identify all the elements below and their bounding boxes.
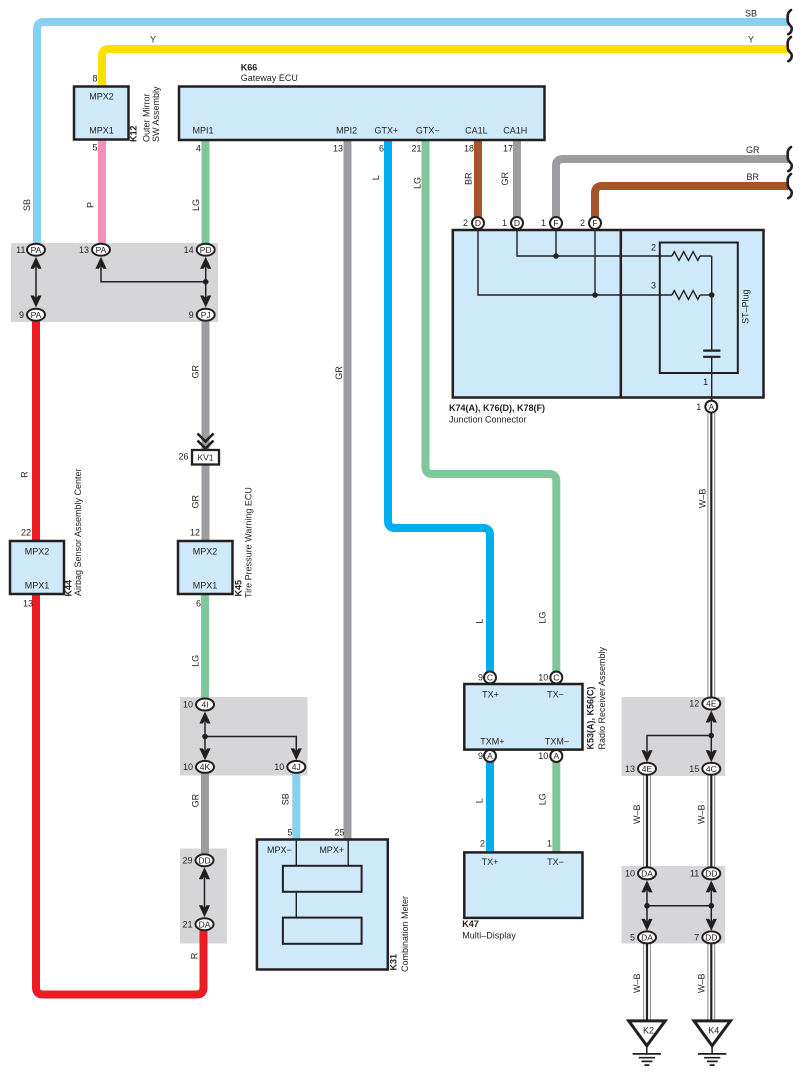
ground stem K2 [646, 1046, 648, 1054]
wire SB horizontal+vertical (sky blue) [37, 22, 788, 246]
capacitor C plate 1 [703, 350, 720, 352]
svg-text:10: 10 [538, 673, 548, 683]
band2 link arrow up col 4I [199, 712, 210, 724]
node dot resistor3 right [709, 292, 715, 298]
svg-text:11: 11 [16, 245, 25, 255]
shield band 5 (DA/DD junction block right) [622, 866, 726, 944]
connector 14 PD [184, 244, 215, 256]
wire L A9 to K47 pin2 [486, 761, 494, 853]
svg-text:Combination Meter: Combination Meter [400, 896, 410, 972]
svg-text:DD: DD [705, 869, 717, 879]
svg-text:4E: 4E [706, 699, 717, 709]
svg-text:CA1H: CA1H [503, 126, 527, 136]
svg-text:4E: 4E [642, 764, 653, 774]
connector 15 4C [689, 763, 720, 775]
wire LG K66 GTX- pin21 to C10 [426, 140, 557, 673]
svg-text:15: 15 [689, 764, 699, 774]
svg-text:7: 7 [694, 933, 699, 943]
svg-text:DA: DA [641, 869, 653, 879]
svg-text:MPI1: MPI1 [192, 126, 213, 136]
shield band 2 (4I/4K/4J junction block) [180, 697, 308, 776]
svg-text:SW Assembly: SW Assembly [151, 86, 161, 142]
wire W-B A1 to 4E12 (double line) [708, 413, 715, 698]
svg-text:MPI2: MPI2 [336, 126, 357, 136]
svg-text:17: 17 [503, 144, 513, 154]
svg-text:1: 1 [502, 218, 507, 228]
svg-text:SB: SB [22, 199, 32, 211]
junction row 3 wire to node [700, 294, 712, 296]
svg-text:K53(A), K56(C): K53(A), K56(C) [585, 686, 595, 749]
svg-text:MPX+: MPX+ [319, 845, 344, 855]
svg-text:GTX+: GTX+ [375, 126, 399, 136]
pin 9 C [478, 672, 496, 684]
wire LG K66 MPI1 pin4 to PD14 [202, 140, 210, 246]
svg-text:MPX2: MPX2 [193, 547, 218, 557]
wire Y horizontal+vertical (yellow) [102, 49, 788, 88]
wire L K66 GTX+ pin6 to C9 [388, 140, 490, 673]
svg-text:TX+: TX+ [482, 857, 499, 867]
shield band 1 (PA/PD/PJ junction block) [11, 243, 218, 322]
svg-text:MPX2: MPX2 [89, 92, 114, 102]
band5 node dot left [644, 903, 650, 909]
svg-text:12: 12 [689, 699, 699, 709]
wire SB 4J to K31 pin5 [292, 773, 300, 841]
ground bars K2 [633, 1054, 661, 1065]
band4 link arrow down col 4E13 [641, 750, 652, 762]
band1 link arrow down col PJ9 [200, 296, 211, 308]
svg-text:2: 2 [480, 839, 485, 849]
band2 node dot [202, 734, 208, 740]
band1 link wire col 36 [35, 262, 37, 302]
junction row 3 wire from D2 [478, 230, 672, 295]
KV1 shield double chevron [198, 434, 214, 449]
svg-text:LG: LG [538, 612, 548, 624]
svg-text:10: 10 [183, 762, 193, 772]
connector 10 DA [625, 867, 656, 879]
svg-text:W–B: W–B [632, 974, 642, 994]
svg-text:5: 5 [92, 143, 97, 153]
svg-text:11: 11 [690, 869, 699, 879]
wire F1 stub [555, 230, 557, 256]
band1 link arrow up col PA11 [30, 257, 41, 269]
band2 link arrow down col 4J [291, 748, 302, 760]
K31 internal wire from pin5 [295, 840, 297, 866]
capacitor C plate 2 [703, 356, 720, 358]
svg-text:6: 6 [196, 599, 201, 609]
svg-text:PJ: PJ [201, 310, 211, 320]
wire W-B 4E13 to DA10 (double line) [644, 775, 651, 867]
band5 cross wire [647, 905, 711, 907]
svg-text:LG: LG [412, 177, 422, 189]
svg-text:21: 21 [182, 919, 192, 929]
svg-text:K66: K66 [241, 62, 258, 72]
svg-text:K2: K2 [643, 1026, 654, 1036]
svg-text:10: 10 [625, 869, 635, 879]
svg-text:TX−: TX− [547, 690, 564, 700]
band4 link wire to 4E13 column [647, 736, 711, 758]
band5 node dot right [709, 903, 715, 909]
svg-text:F: F [553, 218, 558, 228]
band4 link wire col 711.3 [710, 716, 712, 757]
svg-text:K45: K45 [234, 580, 244, 597]
svg-text:5: 5 [287, 827, 292, 837]
connector 7 DD [694, 931, 720, 943]
junction row 2 wire to vertical [700, 255, 712, 257]
band4 link arrow down col 4C15 [706, 750, 717, 762]
svg-text:13: 13 [23, 599, 33, 609]
svg-text:K4: K4 [708, 1026, 719, 1036]
resistor 3 [672, 291, 700, 300]
connector 29 DD [182, 854, 213, 866]
ST-Plug inner box [660, 243, 738, 374]
svg-text:Tire Pressure Warning ECU: Tire Pressure Warning ECU [244, 487, 254, 598]
svg-text:CA1L: CA1L [465, 126, 488, 136]
svg-text:4K: 4K [200, 762, 211, 772]
svg-text:22: 22 [21, 528, 31, 538]
svg-text:W–B: W–B [697, 974, 707, 994]
svg-text:ST–Plug: ST–Plug [741, 289, 751, 324]
svg-text:A: A [708, 402, 714, 412]
svg-text:MPX2: MPX2 [25, 547, 50, 557]
svg-text:13: 13 [625, 764, 635, 774]
svg-text:PD: PD [200, 245, 212, 255]
svg-text:P: P [86, 202, 96, 208]
svg-text:C: C [553, 673, 559, 683]
svg-text:MPX−: MPX− [267, 845, 292, 855]
break symbol GR [788, 147, 792, 171]
ST-plug vertical wire [711, 256, 713, 350]
pin 1 F [541, 217, 562, 229]
svg-text:W–B: W–B [697, 805, 707, 825]
svg-text:GR: GR [746, 145, 760, 155]
svg-text:L: L [371, 175, 381, 180]
svg-text:14: 14 [184, 245, 194, 255]
svg-text:DD: DD [705, 933, 717, 943]
svg-text:GR: GR [500, 172, 510, 186]
pin 1 D [502, 217, 523, 229]
K31 inner rect lower [283, 918, 362, 944]
wire GR K66 MPI2 pin13 to K31 pin25 [344, 140, 352, 841]
box K12 Outer Mirror SW Assembly [74, 87, 129, 140]
svg-text:GR: GR [191, 494, 201, 508]
svg-text:TXM+: TXM+ [480, 736, 504, 746]
svg-text:TX−: TX− [547, 857, 564, 867]
connector 5 DA [630, 931, 656, 943]
break symbol SB [788, 10, 792, 34]
svg-text:9: 9 [189, 310, 194, 320]
band1 link arrow down col PA9 [30, 296, 41, 308]
svg-text:3: 3 [651, 280, 656, 290]
svg-text:BR: BR [464, 172, 474, 185]
wire W-B 4C15 to DD11 (double line) [708, 775, 715, 867]
band3 link arrow up col DD29 [199, 867, 210, 879]
svg-text:DA: DA [199, 919, 211, 929]
svg-text:29: 29 [182, 856, 192, 866]
svg-text:GR: GR [191, 365, 201, 379]
svg-text:13: 13 [333, 144, 343, 154]
svg-text:25: 25 [334, 827, 344, 837]
band5 link wire col 711.3 [710, 886, 712, 925]
box K53/K56 Radio Receiver Assembly [464, 684, 582, 750]
band3 link arrow down col DA21 [199, 905, 210, 917]
band5 link arrow up col DA10 [641, 880, 652, 892]
wire GR PJ9 to KV1 pin26 [202, 318, 210, 451]
svg-text:LG: LG [191, 199, 201, 211]
band1 link arrow up col PD14 [200, 257, 211, 269]
pin 2 D [463, 217, 484, 229]
pin 2 F [580, 217, 601, 229]
svg-text:K74(A), K76(D), K78(F): K74(A), K76(D), K78(F) [449, 403, 545, 413]
connector 9 PJ [189, 309, 215, 321]
band1 link arrow up col PA13 [95, 257, 106, 269]
K31 inner rect upper [283, 866, 362, 892]
band1 link wire PA13 to PD column [101, 262, 206, 282]
svg-text:MPX1: MPX1 [193, 581, 218, 591]
svg-text:TX+: TX+ [482, 690, 499, 700]
svg-text:9: 9 [478, 673, 483, 683]
K31 internal wire from pin25 [347, 840, 349, 866]
svg-text:Y: Y [748, 35, 754, 45]
svg-text:W–B: W–B [697, 489, 707, 509]
connector 10 4K [183, 761, 214, 773]
connector 9 PA [19, 309, 45, 321]
band2 link arrow down col 4K [199, 748, 210, 760]
svg-text:PA: PA [31, 310, 42, 320]
connector 11 DD [690, 867, 720, 879]
ground triangle K4 [694, 1021, 731, 1046]
band3 link wire [204, 872, 206, 913]
box KV1 [192, 450, 219, 465]
wire GR 4K to DD29 [201, 773, 209, 856]
svg-text:LG: LG [191, 655, 201, 667]
svg-text:GR: GR [334, 366, 344, 380]
svg-text:TXM−: TXM− [545, 736, 569, 746]
pin 9 A [478, 750, 496, 762]
svg-text:A: A [553, 751, 559, 761]
box K31 Combination Meter [257, 840, 388, 970]
wire F2 stub [594, 230, 596, 295]
wire P (pink) K12 pin5 to PA13 [98, 140, 106, 246]
svg-text:4: 4 [196, 144, 201, 154]
band2 link wire col 205 [204, 717, 206, 756]
svg-text:GR: GR [191, 793, 201, 807]
svg-text:Junction Connector: Junction Connector [449, 415, 527, 425]
box K66 Gateway ECU [179, 87, 545, 141]
svg-text:K44: K44 [63, 580, 73, 597]
band2 link wire to 4J column [205, 737, 296, 757]
svg-text:26: 26 [178, 452, 188, 462]
svg-text:2: 2 [651, 242, 656, 252]
svg-text:1: 1 [547, 839, 552, 849]
band5 link arrow down col DA5 [641, 919, 652, 931]
svg-text:9: 9 [19, 310, 24, 320]
svg-text:6: 6 [379, 144, 384, 154]
connector 11 PA [16, 244, 45, 256]
svg-text:LG: LG [538, 793, 548, 805]
band1 link wire col 205.7 [205, 262, 207, 302]
svg-text:GTX−: GTX− [416, 126, 440, 136]
svg-text:BR: BR [747, 172, 760, 182]
band4 node dot [709, 733, 715, 739]
svg-text:1: 1 [703, 377, 708, 387]
svg-text:2: 2 [463, 218, 468, 228]
svg-text:4J: 4J [292, 762, 301, 772]
wire LG A10 to K47 pin1 [552, 761, 560, 853]
connector 10 4I [183, 699, 214, 711]
svg-text:MPX1: MPX1 [25, 581, 50, 591]
svg-text:SB: SB [281, 793, 291, 805]
svg-text:D: D [475, 218, 481, 228]
svg-text:21: 21 [411, 144, 421, 154]
svg-text:DA: DA [641, 933, 653, 943]
box K45 Tire Pressure Warning ECU [178, 541, 233, 594]
wire R PA9 to K44 pin22 [32, 318, 40, 542]
svg-text:W–B: W–B [632, 805, 642, 825]
break symbol Y [788, 37, 792, 61]
svg-text:2: 2 [580, 218, 585, 228]
svg-text:KV1: KV1 [197, 453, 213, 463]
pin 10 A [538, 750, 562, 762]
band1 node dot [203, 279, 209, 285]
wire LG K45 pin6 to 4I [201, 593, 209, 700]
resistor 2 [672, 252, 700, 261]
svg-text:1: 1 [696, 402, 701, 412]
svg-text:10: 10 [538, 751, 548, 761]
connector 13 PA [79, 244, 110, 256]
svg-text:PA: PA [96, 245, 107, 255]
svg-text:K31: K31 [388, 954, 398, 971]
svg-text:PA: PA [31, 245, 42, 255]
wire W-B DD7 to ground K4 (double line) [708, 943, 715, 1022]
band5 link wire col 647 [646, 886, 648, 925]
svg-text:8: 8 [92, 74, 97, 84]
svg-text:4C: 4C [706, 764, 717, 774]
svg-text:9: 9 [478, 751, 483, 761]
svg-text:L: L [474, 619, 484, 624]
break symbol BR [788, 174, 792, 198]
node dot row3/F2 [592, 292, 598, 298]
svg-text:10: 10 [183, 700, 193, 710]
svg-text:C: C [487, 673, 493, 683]
node dot row2/F1 [553, 253, 559, 259]
wire GR K66 CA1H pin17 to D1 [513, 140, 521, 217]
svg-text:R: R [190, 952, 200, 959]
svg-text:A: A [487, 751, 493, 761]
svg-text:1: 1 [541, 218, 546, 228]
svg-text:DD: DD [198, 856, 210, 866]
svg-text:SB: SB [745, 9, 757, 19]
svg-text:Radio Receiver Assembly: Radio Receiver Assembly [597, 646, 607, 749]
band5 link arrow up col DD11 [706, 880, 717, 892]
wire R K44 pin13 down across to DA21 [36, 593, 204, 995]
connector 12 4E [689, 698, 720, 710]
wire capacitor to pin 1 / A [711, 357, 713, 400]
box K47 Multi-Display [464, 852, 582, 918]
svg-text:12: 12 [190, 528, 200, 538]
shield band 4 (4E/4C junction block) [622, 697, 726, 776]
wire BR right horizontal to F2 [595, 186, 788, 217]
wire BR K66 CA1L pin18 to D2 [474, 140, 482, 217]
wire GR right horizontal to F1 [556, 159, 788, 217]
junction connector divider [620, 230, 623, 398]
svg-text:5: 5 [630, 933, 635, 943]
svg-text:K12: K12 [129, 125, 139, 142]
junction row 2 wire from D1 [517, 230, 672, 256]
svg-text:Multi–Display: Multi–Display [462, 931, 516, 941]
svg-text:10: 10 [274, 762, 284, 772]
connector 13 4E [625, 763, 656, 775]
ground bars K4 [698, 1054, 726, 1065]
wire W-B DA5 to ground K2 (double line) [644, 943, 651, 1022]
shield band 3 (DD/DA junction block left) [180, 849, 227, 944]
svg-text:18: 18 [464, 144, 474, 154]
connector 21 DA [182, 918, 213, 930]
svg-text:MPX1: MPX1 [89, 126, 114, 136]
connector 10 4J [274, 761, 305, 773]
ground stem K4 [711, 1046, 713, 1054]
box K74/K76/K78 Junction Connector [453, 230, 764, 398]
svg-text:Gateway ECU: Gateway ECU [241, 73, 298, 83]
band5 link arrow down col DD7 [706, 919, 717, 931]
svg-text:F: F [592, 218, 597, 228]
svg-text:13: 13 [79, 245, 89, 255]
band4 link arrow up col 4E12 [706, 711, 717, 723]
ground triangle K2 [629, 1021, 666, 1046]
svg-text:Airbag Sensor Assembly Center: Airbag Sensor Assembly Center [73, 468, 83, 596]
pin 10 C [538, 672, 562, 684]
svg-text:Y: Y [150, 35, 156, 45]
K31 internal wire between rects [295, 892, 297, 918]
box K44 Airbag Sensor Assembly Center [10, 541, 64, 594]
svg-text:L: L [474, 798, 484, 803]
svg-text:R: R [19, 471, 29, 478]
wire GR KV1 to K45 pin12 [202, 463, 210, 542]
svg-text:D: D [514, 218, 520, 228]
pin 1 A junction [696, 401, 717, 413]
svg-text:4I: 4I [201, 700, 208, 710]
svg-text:K47: K47 [462, 919, 479, 929]
